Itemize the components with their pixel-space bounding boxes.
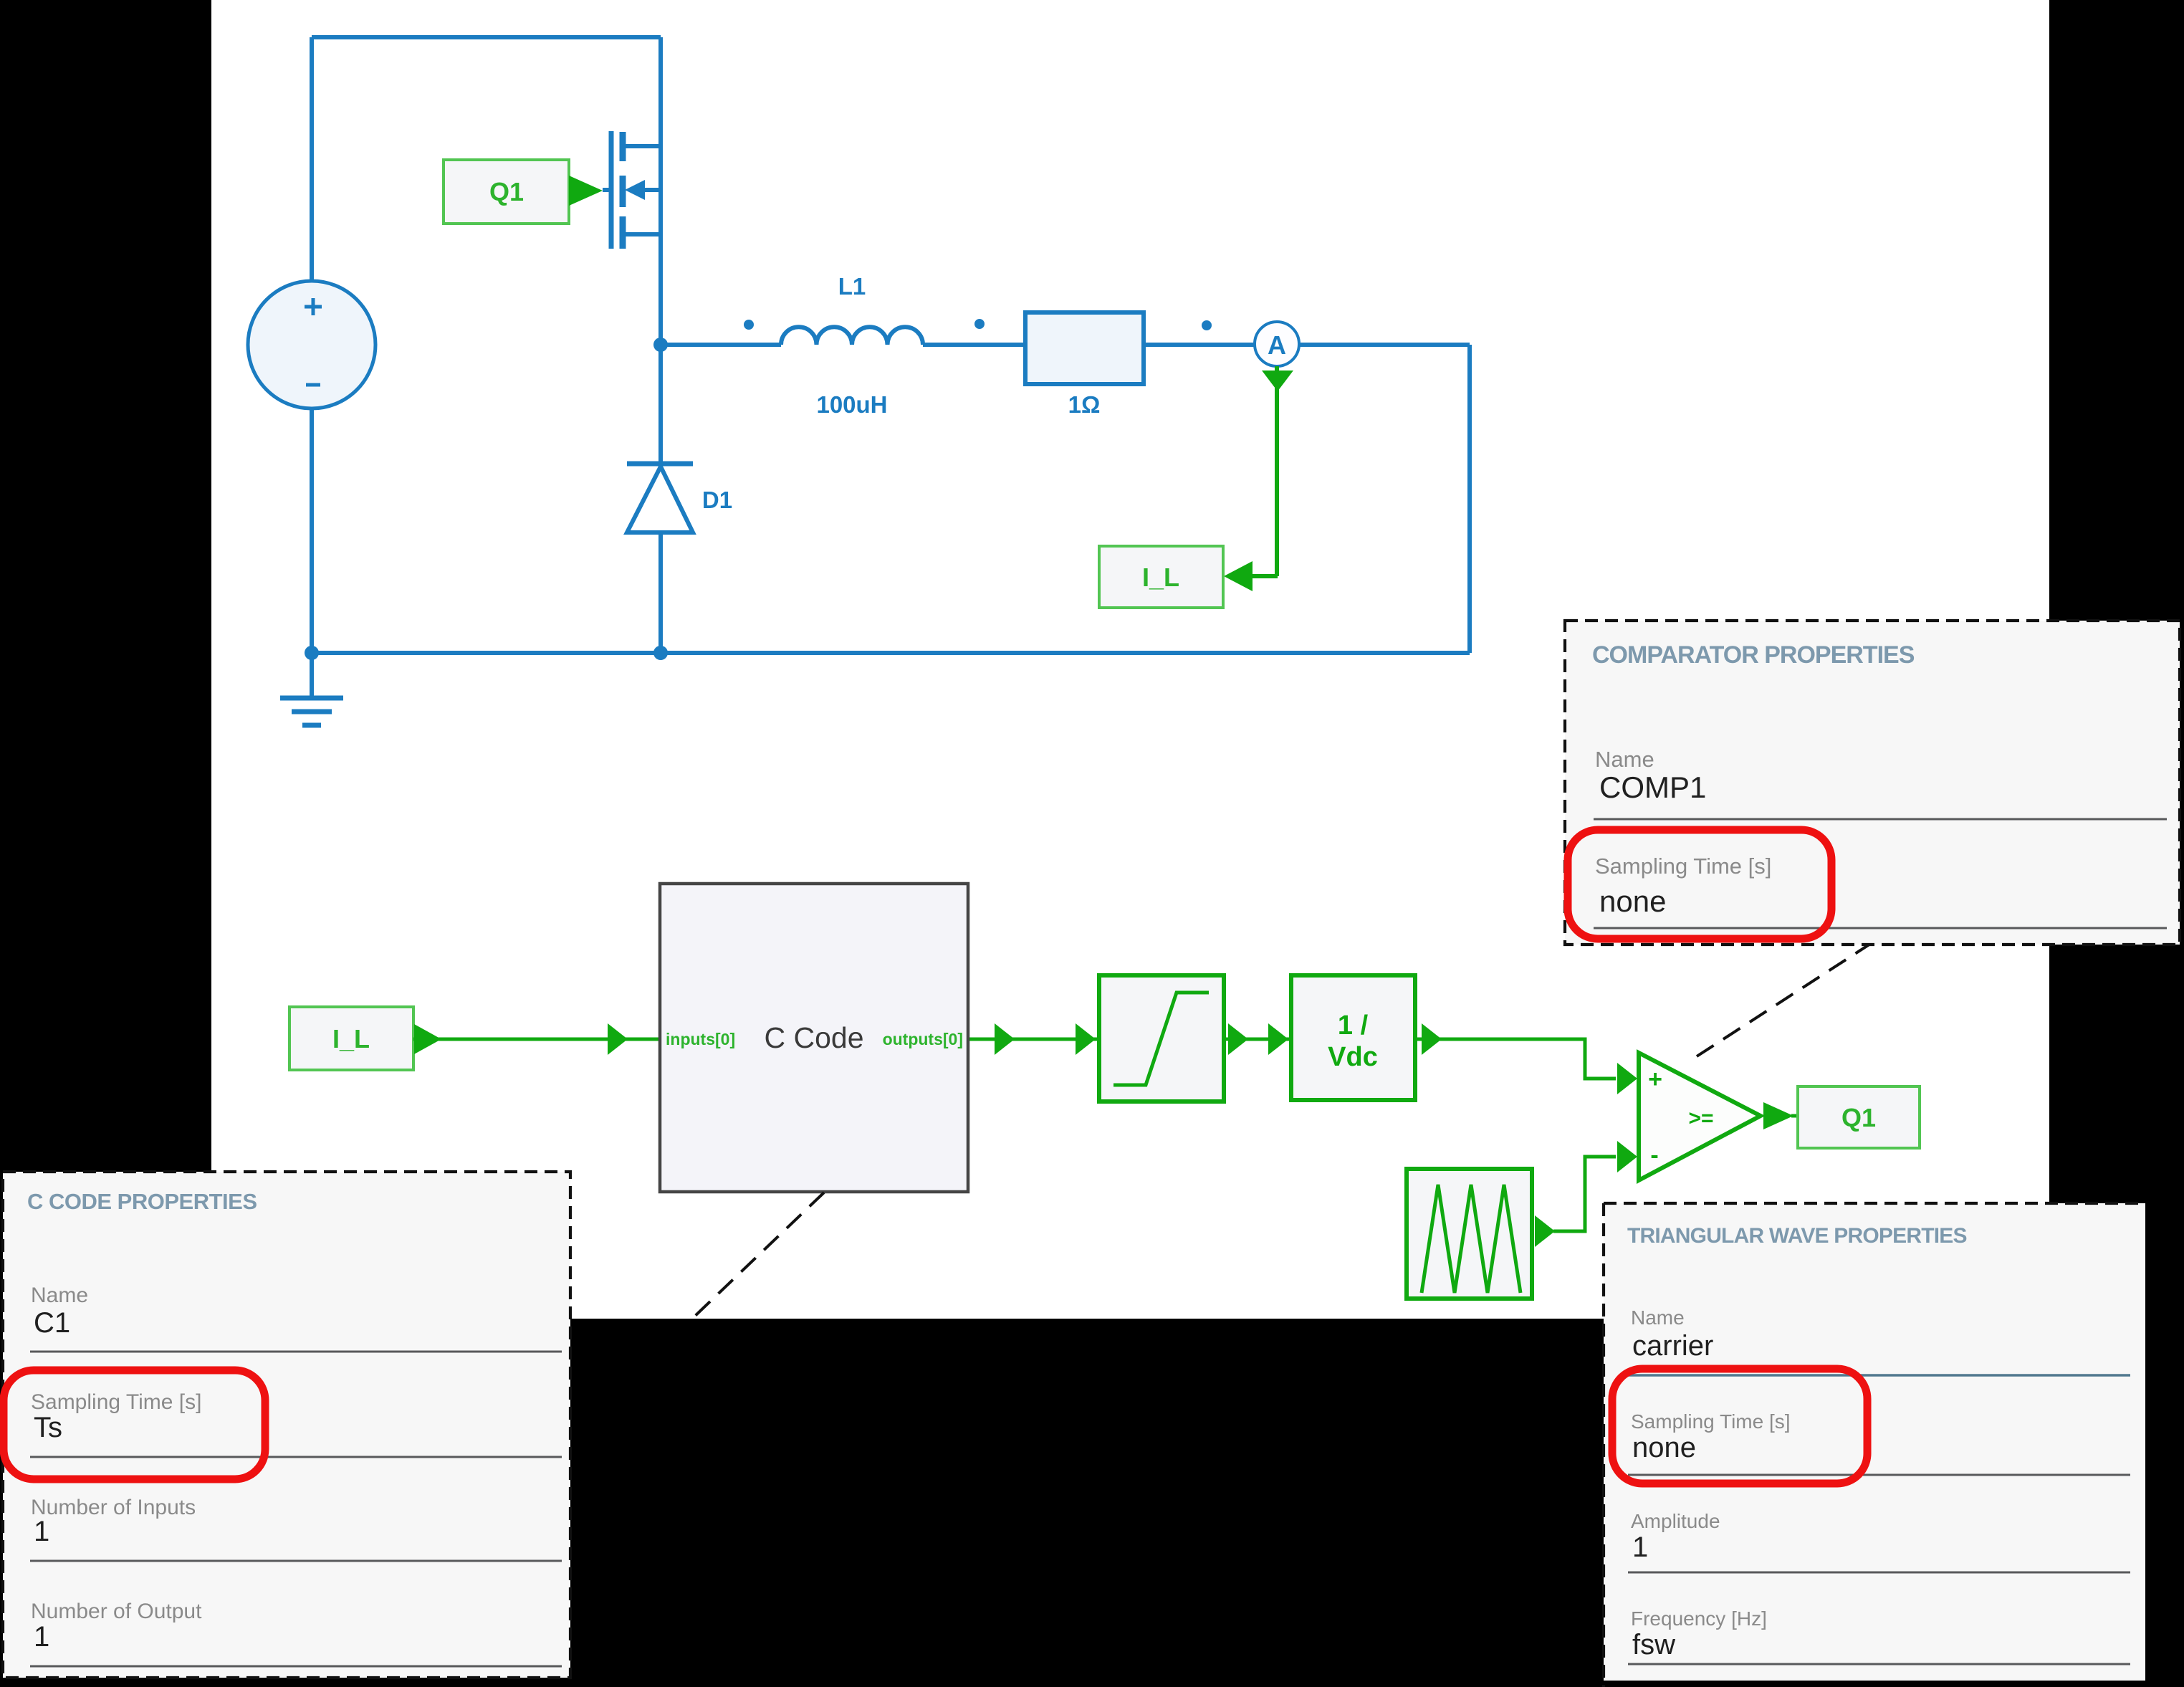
svg-text:C Code: C Code xyxy=(764,1021,863,1054)
svg-text:-: - xyxy=(1650,1142,1658,1169)
svg-text:A: A xyxy=(1268,330,1286,360)
svg-text:Sampling Time [s]: Sampling Time [s] xyxy=(31,1390,201,1414)
svg-text:Sampling Time [s]: Sampling Time [s] xyxy=(1595,854,1771,879)
svg-text:100uH: 100uH xyxy=(816,391,887,418)
svg-text:COMPARATOR PROPERTIES: COMPARATOR PROPERTIES xyxy=(1592,641,1915,669)
svg-text:1: 1 xyxy=(34,1516,49,1547)
svg-text:C CODE PROPERTIES: C CODE PROPERTIES xyxy=(27,1189,257,1214)
svg-text:TRIANGULAR WAVE PROPERTIES: TRIANGULAR WAVE PROPERTIES xyxy=(1627,1224,1967,1248)
svg-text:Name: Name xyxy=(1631,1306,1685,1329)
svg-text:none: none xyxy=(1599,884,1666,918)
svg-text:1: 1 xyxy=(1632,1531,1648,1563)
svg-text:1Ω: 1Ω xyxy=(1068,391,1101,418)
svg-text:Vdc: Vdc xyxy=(1328,1042,1378,1072)
svg-text:I_L: I_L xyxy=(332,1024,370,1053)
svg-text:+: + xyxy=(1648,1066,1662,1093)
svg-text:Amplitude: Amplitude xyxy=(1631,1510,1720,1532)
svg-text:1 /: 1 / xyxy=(1338,1010,1369,1041)
svg-text:outputs[0]: outputs[0] xyxy=(883,1030,963,1048)
svg-text:D1: D1 xyxy=(702,487,732,513)
svg-text:Q1: Q1 xyxy=(1841,1103,1876,1132)
svg-text:Sampling Time [s]: Sampling Time [s] xyxy=(1631,1410,1791,1433)
svg-text:Number of Output: Number of Output xyxy=(31,1600,202,1623)
svg-text:1: 1 xyxy=(34,1621,49,1653)
svg-text:L1: L1 xyxy=(838,273,866,300)
svg-text:Name: Name xyxy=(31,1284,88,1307)
svg-text:inputs[0]: inputs[0] xyxy=(666,1030,735,1048)
svg-text:COMP1: COMP1 xyxy=(1599,770,1706,804)
svg-text:fsw: fsw xyxy=(1632,1629,1675,1660)
svg-text:Frequency [Hz]: Frequency [Hz] xyxy=(1631,1607,1767,1630)
svg-text:Ts: Ts xyxy=(34,1412,62,1443)
svg-text:C1: C1 xyxy=(34,1307,70,1339)
svg-text:Q1: Q1 xyxy=(489,177,524,206)
svg-text:carrier: carrier xyxy=(1632,1330,1713,1362)
svg-text:Name: Name xyxy=(1595,747,1654,772)
svg-text:none: none xyxy=(1632,1432,1696,1463)
svg-text:Number of Inputs: Number of Inputs xyxy=(31,1496,196,1519)
svg-text:>=: >= xyxy=(1688,1107,1713,1130)
svg-text:I_L: I_L xyxy=(1142,563,1179,592)
